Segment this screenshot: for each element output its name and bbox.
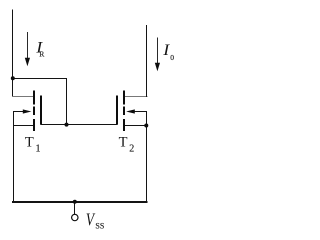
wire T2 source lead [125,125,147,127]
terminal Vss open circle [72,214,78,220]
junction dot T1 drain-gate tie [11,76,15,80]
wire T1 bulk lead [13,111,25,113]
transistor T1 channel and gate bars [34,91,41,131]
svg-text:SS: SS [95,222,104,231]
wire diode connection vertical [66,78,68,125]
wire bottom rail [12,201,148,203]
wire T2 drain lead [125,96,148,98]
wire T2 bulk corner vertical [146,111,148,126]
wire right output vertical lower [146,126,148,203]
wire T1 drain lead [12,96,34,98]
wire gate bus [41,124,118,126]
junction dot Vss rail [73,200,77,204]
junction dot gate bus center [65,123,69,127]
wire diode connection horizontal [12,78,67,80]
svg-text:2: 2 [129,144,134,155]
transistor T1 bulk arrowhead [23,109,32,113]
svg-text:1: 1 [36,144,41,155]
svg-text:0: 0 [170,53,174,62]
wire T2 bulk lead [134,111,148,113]
wire T1 source lead [13,125,34,127]
transistor T2 bulk arrowhead [126,109,135,113]
current arrow I_0 [155,38,160,72]
wire T1 source/bulk down to rail [13,111,15,202]
junction dot T2 source/bulk [144,124,148,128]
wire Vss stub [74,202,76,214]
wire right output vertical upper [146,25,148,97]
transistor T2 channel and gate bars [117,91,124,131]
svg-text:T: T [25,134,34,150]
current arrow I_R [25,32,30,66]
svg-text:T: T [119,134,128,150]
wire left input vertical [12,10,14,98]
